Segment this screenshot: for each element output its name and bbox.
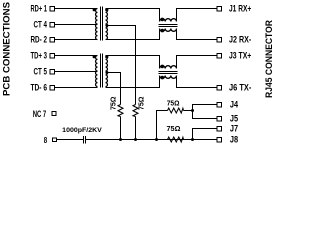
pin 7 NC square — [52, 112, 56, 116]
choke CM2 core — [159, 72, 178, 74]
svg-text:J7: J7 — [230, 124, 238, 134]
svg-text:75Ω: 75Ω — [167, 98, 180, 107]
resistor R1 75ohm vertical zigzag — [118, 105, 123, 117]
svg-text:J6 TX-: J6 TX- — [229, 83, 251, 93]
pin 2 RD- square — [50, 37, 55, 42]
wire T2 secondary top to choke CM2 — [106, 56, 160, 69]
transformer T2 primary winding — [96, 56, 98, 87]
transformer T1 secondary winding — [106, 9, 108, 40]
choke CM1 core — [159, 25, 178, 27]
junction dot riser/bus — [155, 138, 158, 141]
choke CM1 top winding — [160, 19, 177, 22]
T1 centre-tap junction dot — [105, 24, 108, 27]
J6 square — [217, 85, 222, 90]
pin 4 CT square — [50, 22, 55, 27]
svg-text:RD+ 1: RD+ 1 — [31, 4, 48, 14]
wire junction to J5 — [193, 111, 218, 119]
wire CM2 top to J3 — [177, 56, 218, 69]
svg-text:75Ω: 75Ω — [167, 124, 181, 133]
transformer T1 core — [101, 7, 103, 41]
pin 5 CT square — [50, 69, 55, 74]
svg-text:CT 4: CT 4 — [34, 20, 48, 30]
svg-text:1000pF/2KV: 1000pF/2KV — [62, 127, 102, 134]
wire junction to J4 — [193, 105, 218, 111]
J7 square — [217, 126, 222, 131]
wire row5 left (CT to T2 centre tap) — [55, 71, 98, 73]
CM2 bottom phase dot — [161, 76, 165, 80]
wire R2 bottom to ground bus — [135, 117, 137, 140]
svg-text:J3 TX+: J3 TX+ — [229, 51, 251, 61]
svg-text:75Ω: 75Ω — [109, 97, 118, 111]
transformer T2 core — [101, 54, 103, 88]
wire pin8 to capacitor — [57, 139, 84, 141]
svg-text:75Ω: 75Ω — [137, 97, 146, 111]
transformer T2 secondary winding — [106, 56, 108, 87]
CM2 top phase dot — [161, 65, 165, 69]
J8 square — [217, 137, 222, 142]
resistor R4 75ohm horizontal zigzag — [168, 137, 184, 142]
T1 primary phase dot — [93, 8, 96, 11]
resistor R2 75ohm vertical zigzag — [133, 105, 138, 117]
junction dot bus/J7 — [191, 138, 194, 141]
T1 secondary phase dot — [105, 8, 108, 11]
pin 8 square — [53, 138, 57, 142]
wire row4 left (TD+ to T2) — [55, 55, 98, 57]
wire row6 left (TD- to T2) — [55, 87, 98, 89]
wire capacitor to ground bus / J8 — [86, 139, 217, 141]
wire CM2 bottom to J6 — [177, 76, 218, 88]
svg-text:J1 RX+: J1 RX+ — [229, 4, 251, 14]
choke CM2 top winding — [160, 66, 177, 69]
J1 square — [217, 6, 222, 11]
svg-text:8: 8 — [44, 136, 48, 145]
wire R4 to J8 handled by bus; branch to J7 — [193, 129, 218, 140]
pin 3 TD+ square — [50, 53, 55, 58]
junction dot R3/J4-J5 — [191, 109, 194, 112]
wire T1 secondary top to choke CM1 — [106, 9, 160, 22]
wire T2 secondary centre tap to R1 — [106, 73, 121, 105]
wire R3 to junction — [184, 110, 193, 112]
svg-text:RD- 2: RD- 2 — [31, 35, 48, 45]
svg-text:PCB CONNECTIONS: PCB CONNECTIONS — [2, 2, 13, 96]
svg-text:RJ45 CONNECTOR: RJ45 CONNECTOR — [264, 20, 275, 98]
wire riser to R3 row — [157, 111, 168, 140]
J2 square — [217, 37, 222, 42]
resistor R3 75ohm horizontal zigzag — [168, 108, 184, 113]
svg-text:J8: J8 — [230, 135, 238, 145]
CM1 top phase dot — [161, 18, 165, 22]
wire T2 secondary bottom to choke CM2 — [106, 76, 160, 88]
svg-text:J5: J5 — [230, 114, 238, 124]
pin 6 TD- square — [50, 85, 55, 90]
svg-text:TD- 6: TD- 6 — [31, 83, 48, 93]
T2 secondary phase dot — [105, 55, 108, 58]
J5 square — [217, 116, 222, 121]
wire row3 left (RD- to T1) — [55, 39, 98, 41]
pin 1 RD+ square — [50, 6, 55, 11]
capacitor C1 plates — [84, 136, 86, 144]
wire R1 bottom to ground bus — [120, 117, 122, 140]
J4 square — [217, 102, 222, 107]
svg-text:J2 RX-: J2 RX- — [229, 35, 251, 45]
wire row1 left (RD+ to T1) — [55, 8, 98, 10]
wire row2 left (CT to T1 centre tap) — [55, 24, 98, 26]
J3 square — [217, 53, 222, 58]
wire T1 secondary bottom to choke CM1 — [106, 29, 160, 40]
junction dot R2/bus — [134, 138, 137, 141]
CM1 bottom phase dot — [161, 29, 165, 33]
junction dot R1/bus — [119, 138, 122, 141]
transformer T1 primary winding — [96, 9, 98, 40]
wire CM1 top to J1 — [177, 9, 218, 22]
choke CM1 bottom winding — [160, 29, 177, 32]
T2 primary phase dot — [93, 55, 96, 58]
svg-text:NC 7: NC 7 — [33, 109, 47, 119]
svg-text:CT 5: CT 5 — [34, 67, 48, 77]
svg-text:TD+ 3: TD+ 3 — [31, 51, 48, 61]
wire T1 secondary centre tap to R2 — [106, 26, 136, 105]
svg-text:J4: J4 — [230, 100, 238, 110]
T2 centre-tap junction dot — [105, 71, 108, 74]
wire CM1 bottom to J2 — [177, 29, 218, 40]
choke CM2 bottom winding — [160, 76, 177, 79]
